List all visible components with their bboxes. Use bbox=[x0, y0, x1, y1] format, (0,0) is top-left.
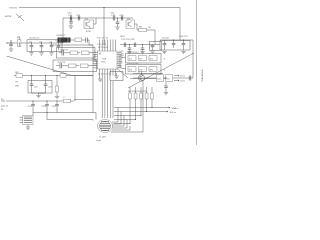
svg-text:R11: R11 bbox=[166, 79, 169, 81]
ground bbox=[9, 49, 13, 51]
svg-text:JP4: JP4 bbox=[129, 69, 132, 71]
wire riser bbox=[74, 76, 76, 102]
wire net stub BUSA bbox=[152, 107, 170, 109]
junction node bbox=[56, 75, 57, 76]
wire net stub BUSB bbox=[147, 111, 169, 113]
svg-text:11: 11 bbox=[94, 64, 96, 66]
wire right horizontal link bbox=[133, 73, 163, 75]
ground bbox=[49, 53, 53, 55]
wire fan pin b bbox=[112, 112, 121, 125]
terminal left rail bbox=[7, 42, 8, 43]
svg-text:5-pole: 5-pole bbox=[96, 140, 101, 142]
wire supply rail bbox=[8, 100, 63, 102]
jumper JP6 bbox=[149, 67, 157, 72]
capacitor C13 to ground bbox=[69, 18, 73, 26]
wire input to IC bbox=[89, 40, 93, 45]
resistor R5 bbox=[139, 28, 147, 31]
resistor R8 bbox=[81, 64, 94, 68]
ground bbox=[164, 93, 168, 95]
resistor R12 bbox=[55, 76, 58, 97]
ground bbox=[127, 52, 131, 54]
net arrow OUT1 bbox=[174, 75, 185, 78]
group box left caps bbox=[27, 40, 62, 52]
svg-text:1 2 3 4 5 6: 1 2 3 4 5 6 bbox=[97, 44, 106, 46]
svg-text:10u 100n: 10u 100n bbox=[162, 38, 169, 40]
wire right column bbox=[192, 53, 194, 78]
wire right mid rail bbox=[133, 77, 193, 79]
junction node bbox=[56, 100, 57, 101]
wire fan pin a bbox=[112, 108, 118, 123]
group box filter row A bbox=[57, 48, 96, 59]
resistor R25 bbox=[114, 87, 154, 108]
sheet border right edge bbox=[196, 0, 198, 145]
svg-text:20 19 18 17 16: 20 19 18 17 16 bbox=[98, 74, 111, 76]
resistor R11 bbox=[166, 75, 173, 82]
net arrow OUT2 bbox=[174, 80, 185, 83]
wire VS rail bbox=[19, 8, 180, 41]
junction node bbox=[19, 42, 20, 43]
junction node bbox=[146, 111, 147, 112]
resistor R24 bbox=[114, 87, 148, 112]
wire join filter bbox=[32, 93, 46, 95]
ground bbox=[140, 52, 144, 54]
svg-text:SCL in: SCL in bbox=[170, 112, 177, 114]
wire bank B feed bbox=[122, 68, 126, 70]
capacitor C15 bbox=[121, 16, 123, 21]
wire bottom rail to right cluster bbox=[130, 78, 168, 80]
svg-text:TDA: TDA bbox=[102, 58, 107, 61]
capacitor C16 to ground bbox=[116, 18, 120, 27]
junction node bbox=[173, 39, 174, 40]
ground bbox=[150, 51, 154, 53]
svg-text:C23: C23 bbox=[34, 87, 37, 89]
group box right caps bbox=[160, 41, 190, 51]
junction node bbox=[103, 7, 104, 8]
jumper JP1 bbox=[128, 56, 136, 61]
wire left diagonal bus bbox=[7, 56, 94, 76]
junction node bbox=[129, 123, 130, 124]
svg-text:JP2: JP2 bbox=[139, 58, 142, 60]
capacitor C25 bbox=[45, 101, 49, 113]
resistor R21 bbox=[114, 87, 132, 124]
wire fan pin c bbox=[113, 116, 125, 127]
capacitor C4 bbox=[50, 43, 54, 52]
ground bbox=[98, 79, 102, 81]
transistor Q4 bbox=[138, 71, 144, 81]
junction node bbox=[74, 99, 75, 100]
svg-text:1k: 1k bbox=[164, 59, 166, 61]
svg-text:C6 R3 C7: C6 R3 C7 bbox=[56, 35, 66, 37]
wire pin20 drop bbox=[99, 76, 102, 80]
wire R5 to node bbox=[147, 30, 156, 45]
svg-text:10k: 10k bbox=[148, 27, 151, 29]
capacitor C26 bbox=[55, 101, 59, 113]
resistor R10 bbox=[157, 75, 164, 82]
net arrow BUSA bbox=[169, 107, 170, 108]
junction node bbox=[46, 112, 47, 113]
svg-text:R16 R17 R18: R16 R17 R18 bbox=[128, 63, 139, 65]
ground bbox=[39, 53, 43, 55]
ground block bbox=[110, 72, 123, 81]
resistor R23 bbox=[114, 87, 143, 116]
transistor Q2 bbox=[126, 18, 137, 28]
wire fan pin e bbox=[112, 126, 130, 130]
ground bbox=[181, 51, 185, 53]
svg-text:C9 R7 R8: C9 R7 R8 bbox=[57, 62, 65, 64]
capacitor C1 bbox=[9, 40, 13, 49]
junction node bbox=[183, 39, 184, 40]
junction node bbox=[70, 17, 71, 18]
svg-text:OUT1: OUT1 bbox=[180, 76, 185, 78]
resistor R6 bbox=[82, 51, 94, 55]
junction node bbox=[146, 77, 147, 78]
capacitor C7 bbox=[84, 38, 89, 43]
wire fan pin d bbox=[113, 120, 128, 129]
junction node bbox=[31, 42, 32, 43]
connector J1 bbox=[98, 120, 113, 133]
capacitor C19 bbox=[151, 45, 155, 51]
junction node bbox=[117, 17, 118, 18]
capacitor C21 bbox=[172, 40, 176, 48]
capacitor C18 bbox=[134, 43, 136, 48]
wire right rail drop bbox=[192, 40, 194, 53]
net arrow BUSB bbox=[167, 111, 168, 112]
group box jumper bank A bbox=[126, 54, 162, 64]
transistor Q1 bbox=[84, 18, 96, 28]
wire left rail bbox=[8, 42, 63, 44]
capacitor C10 bbox=[70, 16, 72, 21]
box small right bbox=[150, 42, 162, 51]
junction node bbox=[41, 42, 42, 43]
resistor R22 bbox=[114, 87, 137, 120]
svg-text:JP1: JP1 bbox=[129, 58, 132, 60]
jumper JP4 bbox=[128, 67, 136, 72]
wire right rail bbox=[160, 39, 193, 41]
U1 top pins bbox=[100, 40, 116, 52]
svg-text:28 27 26 25: 28 27 26 25 bbox=[98, 47, 108, 49]
wire bank A feed bbox=[122, 57, 126, 59]
capacitor C5 bbox=[57, 43, 61, 50]
ground bbox=[36, 96, 40, 98]
ground bbox=[162, 51, 166, 53]
svg-text:GND: GND bbox=[15, 86, 20, 88]
svg-text:C17 C18 C19: C17 C18 C19 bbox=[121, 39, 135, 41]
capacitor C29 to ground bbox=[141, 45, 145, 52]
group box filter bbox=[28, 81, 52, 94]
input terminal 2 bbox=[1, 105, 8, 107]
capacitor C2 bbox=[30, 43, 34, 52]
svg-text:4 26 5 25 7 24: 4 26 5 25 7 24 bbox=[97, 38, 109, 40]
U1 left pin numbers bbox=[94, 51, 96, 66]
junction node bbox=[46, 100, 47, 101]
group box filter row B bbox=[53, 60, 97, 72]
U1 right pins bbox=[117, 53, 122, 68]
ground bbox=[29, 53, 33, 55]
wire right diagonal bus bbox=[128, 53, 194, 88]
capacitor C28 to ground bbox=[128, 45, 132, 52]
ground bbox=[115, 27, 119, 29]
svg-text:C24: C24 bbox=[48, 87, 51, 89]
junction node bbox=[78, 17, 79, 18]
capacitor C17 bbox=[124, 43, 126, 48]
capacitor C24 bbox=[31, 101, 35, 113]
wire drop to left row bbox=[62, 18, 64, 43]
svg-text:10: 10 bbox=[94, 60, 96, 62]
capacitor C24b bbox=[44, 76, 48, 94]
svg-text:JP3: JP3 bbox=[150, 58, 153, 60]
group box jumper bank B bbox=[126, 65, 162, 75]
junction node bbox=[32, 100, 33, 101]
resistor R9 bbox=[16, 74, 23, 77]
input terminal bbox=[1, 100, 8, 102]
junction node bbox=[140, 115, 141, 116]
wire link to column bbox=[75, 99, 93, 101]
svg-text:VS 8.5V: VS 8.5V bbox=[9, 8, 18, 10]
op-amp U1 body bbox=[98, 51, 118, 69]
svg-text:IN-: IN- bbox=[1, 109, 4, 111]
svg-text:TP1: TP1 bbox=[15, 82, 18, 84]
svg-text:C8 R4 R6: C8 R4 R6 bbox=[60, 50, 68, 52]
svg-text:100n: 100n bbox=[68, 13, 72, 15]
connector J2 bbox=[20, 116, 34, 125]
wire mid right rail bbox=[120, 44, 160, 46]
ground bbox=[26, 127, 30, 129]
capacitor C9 bbox=[56, 63, 66, 69]
U1 index dot bbox=[99, 53, 100, 54]
svg-text:BC547: BC547 bbox=[86, 31, 91, 33]
wire bus to connector lower bbox=[47, 113, 93, 121]
wire fan pin f bbox=[111, 82, 143, 133]
svg-text:D1: D1 bbox=[138, 72, 140, 74]
capacitor C20 bbox=[163, 40, 167, 51]
svg-text:10u 100n 47n: 10u 100n 47n bbox=[29, 38, 39, 40]
wire mid rail bbox=[50, 44, 93, 46]
svg-text:JP6: JP6 bbox=[150, 69, 153, 71]
wire Q1 out bbox=[95, 18, 97, 24]
svg-text:TDA7461ND: TDA7461ND bbox=[201, 69, 204, 82]
junction node bbox=[142, 44, 143, 45]
wire IC top feed left bbox=[103, 8, 105, 46]
svg-text:1k: 1k bbox=[164, 70, 166, 72]
wire bus to connector upper bbox=[33, 113, 96, 120]
resistor R7 bbox=[66, 64, 79, 68]
capacitor C8 bbox=[59, 50, 67, 56]
wire bottom pin drops bbox=[102, 76, 113, 119]
jumper JP5 bbox=[139, 67, 147, 72]
U1 bottom pins bbox=[100, 69, 116, 76]
junction node bbox=[151, 107, 152, 108]
junction node bbox=[45, 75, 46, 76]
junction node bbox=[135, 119, 136, 120]
capacitor C3 bbox=[40, 43, 44, 52]
wire U1 corner exit bbox=[117, 69, 128, 79]
U1 left pins bbox=[93, 53, 98, 68]
capacitor C14 bbox=[113, 16, 115, 21]
resistor R2 bbox=[18, 37, 21, 47]
wire feed bbox=[14, 75, 93, 77]
jumper JP2 bbox=[139, 56, 147, 61]
junction node bbox=[121, 17, 122, 18]
svg-text:J1 DIN: J1 DIN bbox=[99, 137, 106, 139]
junction node bbox=[51, 42, 52, 43]
svg-text:R13 R14 R15: R13 R14 R15 bbox=[128, 52, 139, 54]
electrolytic capacitor C6 bbox=[55, 38, 73, 43]
svg-text:100n: 100n bbox=[111, 13, 115, 15]
svg-text:R10: R10 bbox=[157, 79, 160, 81]
wire J2 top feed bbox=[32, 113, 34, 116]
svg-text:C20 C21: C20 C21 bbox=[179, 36, 188, 38]
capacitor C30 bbox=[189, 76, 191, 81]
svg-text:SDA in: SDA in bbox=[172, 107, 179, 110]
svg-text:MUTE: MUTE bbox=[5, 16, 12, 18]
junction node bbox=[31, 75, 32, 76]
junction node bbox=[165, 77, 166, 78]
capacitor C11 bbox=[78, 16, 80, 21]
wire Q2 out bbox=[137, 24, 139, 30]
svg-text:8: 8 bbox=[94, 51, 95, 53]
ground bbox=[55, 97, 59, 99]
ground bbox=[69, 26, 73, 28]
antenna symbol bbox=[16, 14, 24, 21]
wire top bias rail bbox=[63, 17, 133, 19]
series component L2 bbox=[60, 74, 66, 78]
jumper JP3 bbox=[149, 56, 157, 61]
junction node bbox=[129, 44, 130, 45]
capacitor C27 to ground bbox=[164, 82, 168, 92]
capacitor C23 bbox=[30, 76, 34, 94]
resistor R3 bbox=[73, 38, 84, 42]
svg-text:OUT2: OUT2 bbox=[180, 81, 185, 83]
U1 right pin labels bbox=[119, 51, 125, 68]
fuse F1 bbox=[64, 99, 75, 102]
capacitor C22 bbox=[182, 40, 186, 51]
wire J2 ground bbox=[27, 125, 29, 128]
resistor R4 bbox=[67, 51, 80, 55]
svg-text:9: 9 bbox=[94, 56, 95, 58]
wire left column bbox=[92, 45, 94, 113]
svg-text:L1: L1 bbox=[64, 97, 66, 99]
